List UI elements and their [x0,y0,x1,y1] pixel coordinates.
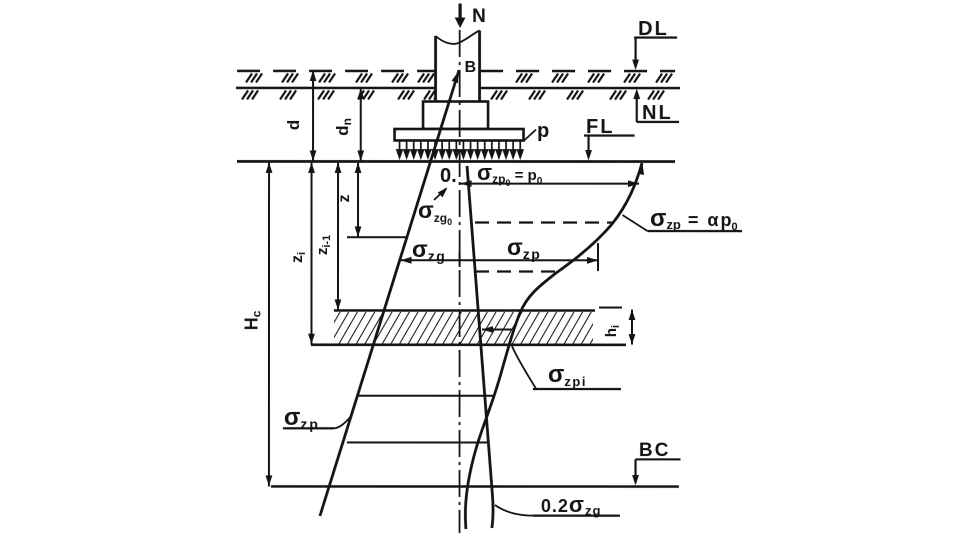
dim line sigma_zg / sigma_zp [401,259,598,261]
svg-text:0.2σzg: 0.2σzg [541,492,602,518]
FL line (foundation level) [237,160,675,163]
svg-text:hi: hi [603,325,622,337]
dimension z_i [310,163,312,345]
svg-text:σzg: σzg [412,236,446,264]
footing slab [395,129,524,141]
dashed level line 1 [475,221,612,223]
svg-text:B: B [465,59,477,76]
level line at depth z [347,236,407,238]
sigma_zg sloping line from B [320,70,459,516]
FL flag [584,136,635,153]
level line below layer 2 [347,441,489,443]
0.2 sigma_zg line (near vertical) [467,166,493,528]
label sigma_zpi with arrow and leader [482,329,512,331]
pressure arrows p under slab [397,140,523,157]
ground line DL (dashed) [237,70,675,73]
svg-text:NL: NL [642,102,673,124]
curve top arrowhead [637,163,646,175]
BC flag [636,459,681,477]
dimension d [312,71,314,161]
pedestal step [423,101,488,129]
dimension Hc [268,162,270,486]
dashed level line 2 [475,270,558,272]
load arrow N [458,3,461,19]
sigma_zp curve [465,163,642,529]
svg-text:dn: dn [333,118,354,136]
centerline (dash-dot axis) [459,30,461,533]
svg-text:σzp: σzp [507,234,541,262]
svg-text:BC: BC [639,440,670,461]
label p with leader [524,130,537,142]
dimension dn [360,88,362,162]
svg-text:Hc: Hc [241,310,263,330]
label sigma_zp = alpha p0 with underline and leader [623,215,648,231]
NL flag [637,96,679,122]
label sigma_zg0 with leader [434,188,446,200]
svg-text:p: p [537,120,549,142]
column [436,30,480,103]
dimension z_i-1 [337,163,339,310]
dimension hi [631,310,633,345]
DL flag [634,38,677,63]
label 0.2 sigma_zg with underline and leader [495,505,533,516]
svg-text:FL: FL [586,116,614,138]
svg-text:σzp0 = p0: σzp0 = p0 [477,160,543,188]
svg-text:zi: zi [289,252,308,263]
ground hatch under DL [246,73,672,82]
dim sigma_zp0 = p0 [460,183,639,185]
svg-text:N: N [472,6,486,27]
svg-text:σzp: σzp [284,404,320,432]
hatched soil layer i [334,312,593,344]
svg-text:DL: DL [638,18,669,40]
dimension z [357,163,359,237]
svg-text:σzpi: σzpi [548,361,587,389]
ground hatch under NL [242,90,664,99]
label sigma_zp (bottom left) with underline and leader [283,427,334,429]
svg-text:zi-1: zi-1 [314,235,333,255]
svg-text:d: d [284,120,303,130]
svg-text:σzg0: σzg0 [418,197,452,227]
BC line (lower boundary of compressed zone) [271,485,679,488]
ground line NL (solid) [236,87,680,90]
svg-text:σzp = αp0: σzp = αp0 [650,205,738,233]
svg-text:0.: 0. [440,165,457,187]
level line below layer 1 [357,395,493,397]
